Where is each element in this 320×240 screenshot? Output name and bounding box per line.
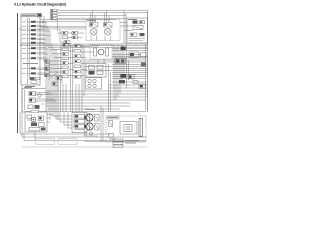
lower left block label	[24, 87, 32, 89]
footer legend box 1	[36, 139, 55, 145]
lower left control block outline	[22, 89, 46, 113]
footer legend box 2	[58, 139, 77, 145]
tank breather	[109, 121, 113, 127]
pilot manifold label box	[31, 110, 39, 113]
lower block bottom parts	[25, 90, 45, 110]
pilot manifold parts	[27, 115, 52, 141]
aux valve cluster right	[119, 44, 146, 88]
small valve 2	[141, 63, 146, 67]
top right valve block outline	[127, 18, 148, 43]
pump inlet marks	[84, 116, 86, 128]
top bus line 3	[58, 15, 127, 17]
port block stack	[51, 9, 58, 19]
swing motor	[94, 48, 109, 56]
relief pair	[129, 52, 139, 57]
top right block label	[128, 18, 137, 20]
travel motor L brake valve	[90, 23, 99, 28]
valve spool 6	[28, 42, 47, 44]
valve spool 11	[28, 72, 49, 74]
main pump label	[85, 108, 95, 110]
mid right rails	[114, 44, 120, 100]
junction block D parts	[58, 29, 85, 43]
tank top line	[48, 111, 146, 113]
pilot cluster boxes	[52, 77, 62, 92]
main pump P1	[86, 114, 93, 121]
right rail	[147, 10, 149, 112]
lower block valve 2	[29, 98, 56, 102]
port stack drop	[57, 19, 59, 31]
top right block parts	[120, 21, 145, 41]
svg-text:6.1.2 Hydraulic Circuit Diagra: 6.1.2 Hydraulic Circuit Diagram(EU)	[14, 2, 66, 6]
center manifold left column	[62, 44, 68, 78]
pilot mesh verticals	[63, 84, 79, 112]
lower block gauge	[38, 94, 42, 98]
travel motor drains	[91, 36, 111, 41]
pump drop rails	[100, 106, 102, 142]
suction filter box	[120, 122, 137, 135]
swing drops	[98, 59, 104, 64]
mid-right bus lines	[84, 44, 148, 112]
top bus line 2	[58, 12, 148, 14]
right drop lines	[123, 10, 125, 44]
main bus band	[20, 43, 148, 45]
shuttle valve column	[45, 60, 50, 77]
bottom return elbows	[20, 112, 110, 134]
center manifold right column	[74, 45, 80, 79]
top bus line 1	[58, 9, 148, 11]
CV bottom label	[25, 86, 35, 88]
center manifold fills	[63, 44, 77, 77]
valve spool 7	[28, 47, 49, 49]
CV header text	[22, 14, 36, 16]
valve spool 8	[28, 52, 49, 54]
check valve blob	[121, 47, 126, 51]
valve spool 3	[28, 29, 51, 31]
swing motor label	[91, 45, 99, 47]
tank drain parts	[109, 134, 117, 140]
small valve	[141, 53, 147, 58]
travel section label	[23, 63, 38, 65]
relief valve at CV top	[37, 13, 42, 17]
valve spool 4	[28, 33, 51, 35]
solenoid block parts	[74, 115, 85, 130]
slant link	[48, 72, 58, 80]
travel motor R	[105, 29, 112, 36]
oil cooler	[139, 119, 143, 137]
suction filter inner	[124, 125, 132, 132]
lower block valve 1	[29, 92, 52, 96]
valve spool 1	[28, 21, 47, 23]
travel feed line 2	[42, 21, 86, 23]
rotary joint circles box	[86, 78, 102, 90]
footer base line	[22, 146, 148, 148]
travel motors dashed box	[86, 20, 120, 41]
page edge line	[17, 13, 19, 133]
travel feed line 1	[40, 19, 116, 21]
pilot mesh horizontals	[46, 91, 148, 109]
mesh elbow drops	[52, 112, 72, 128]
travel motor L	[91, 29, 98, 36]
tank label box	[107, 116, 119, 119]
rotary joint outline	[86, 64, 106, 78]
pilot pump circle	[31, 117, 36, 122]
rotary joint parts	[89, 66, 104, 75]
solenoid block N outline	[72, 113, 87, 133]
pump regulator marks	[85, 113, 100, 137]
CV bottom cluster	[30, 77, 40, 83]
main pump P2	[86, 123, 93, 130]
valve spool 5	[28, 38, 47, 40]
CV inner rail	[27, 17, 29, 85]
solenoid cluster	[115, 59, 126, 64]
bottom line to tank	[85, 141, 147, 143]
footer note stack	[113, 139, 139, 147]
hydraulic tank dashed box	[106, 116, 146, 142]
rotary joint circles	[88, 79, 96, 87]
CV header label	[21, 14, 37, 17]
pilot band lines	[40, 26, 86, 28]
valve spool 2	[28, 25, 49, 27]
bottom-left pilot manifold outline	[25, 112, 47, 133]
travel motor feed drops	[91, 10, 110, 22]
center rails	[60, 46, 62, 112]
left rails	[43, 16, 45, 62]
swing motor dashed box	[90, 45, 112, 60]
valve spool 10	[28, 67, 49, 69]
top bus line 4	[58, 17, 127, 19]
travel motor R brake valve	[104, 23, 113, 28]
travel motors label	[87, 20, 96, 22]
valve-to-manifold links	[50, 46, 94, 76]
CV inner rail 2	[29, 18, 31, 80]
valve spool 9	[28, 57, 49, 59]
control valve main block CV outline	[21, 14, 40, 85]
CV port labels	[22, 22, 26, 74]
